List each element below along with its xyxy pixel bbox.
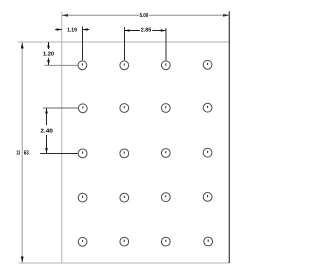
svg-text:1.20: 1.20	[43, 52, 54, 58]
hole r1c2	[120, 61, 129, 70]
dimension 5.00 text	[140, 13, 149, 19]
dimension 1.20 line	[47, 42, 50, 65]
hole r4c4	[203, 193, 212, 202]
plate top edge	[18, 41, 230, 43]
extension line row2 left	[43, 107, 78, 109]
plate right edge	[228, 11, 230, 263]
dimension 2.40 line	[45, 108, 48, 153]
hole r5c1	[78, 237, 87, 246]
hole r4c2	[120, 193, 129, 202]
hole r3c3	[161, 149, 170, 158]
hole r2c4	[203, 103, 212, 112]
dimension 1.19 text	[67, 28, 77, 34]
hole r5c3	[161, 237, 170, 246]
dimension 2.85 line	[124, 29, 166, 32]
svg-text:2.40: 2.40	[40, 128, 53, 134]
extension line col3	[165, 28, 167, 60]
dimension 1.20 text	[43, 52, 54, 58]
height dimension line	[21, 42, 24, 262]
hole r1c4	[203, 60, 212, 69]
hole r3c1	[78, 149, 87, 158]
hole r4c1	[78, 193, 87, 202]
hole r2c3	[161, 104, 170, 113]
svg-text:5.00: 5.00	[140, 13, 149, 19]
extension line row3 left	[40, 153, 78, 155]
dimension 2.40 text	[40, 128, 53, 134]
extension line col2	[124, 27, 126, 60]
plate left edge	[61, 12, 63, 264]
hole r2c2	[120, 104, 129, 113]
svg-text:63: 63	[24, 149, 29, 156]
height dimension text	[16, 149, 29, 156]
extension line col1	[82, 27, 84, 61]
dimension 1.19 right arrow	[83, 28, 90, 31]
hole r2c1	[78, 104, 87, 113]
hole r5c4	[204, 237, 213, 246]
dimension 2.85 text	[141, 28, 151, 34]
svg-text:13: 13	[16, 149, 20, 156]
hole r3c2	[120, 149, 129, 158]
dimension 5.00 line	[62, 14, 230, 17]
plate bottom edge	[19, 262, 230, 264]
hole r1c1	[78, 61, 87, 70]
hole r4c3	[161, 193, 170, 202]
extension line row1 left	[44, 64, 77, 66]
hole r5c2	[120, 237, 129, 246]
hole r3c4	[203, 148, 212, 157]
dimension 1.19 left arrow	[55, 28, 62, 31]
hole r1c3	[161, 61, 170, 70]
svg-text:1.19: 1.19	[67, 28, 77, 34]
svg-text:2.85: 2.85	[141, 28, 151, 34]
